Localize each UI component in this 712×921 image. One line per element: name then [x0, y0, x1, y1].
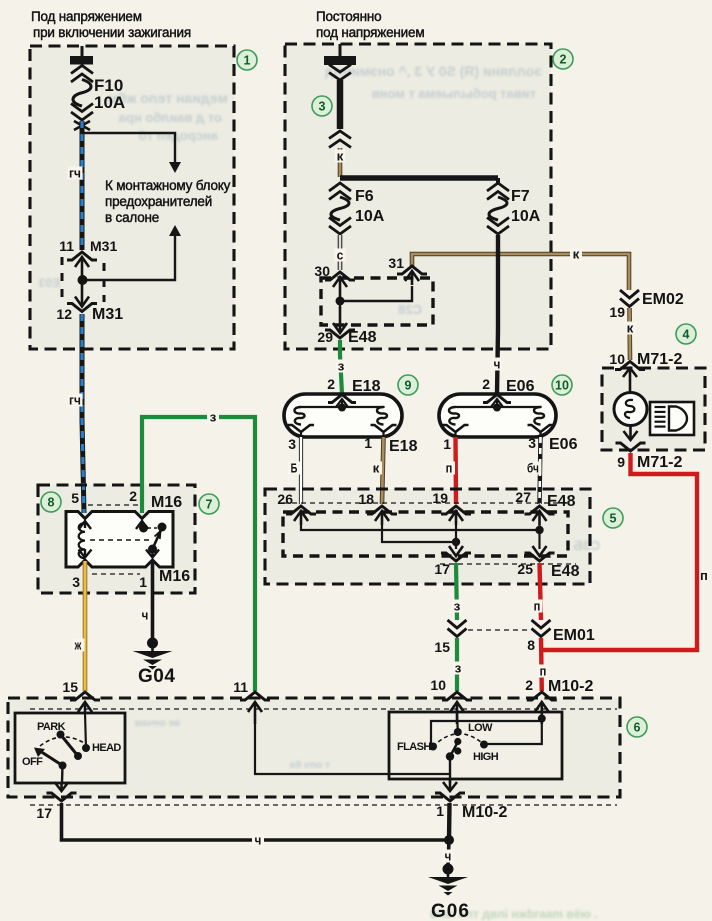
- connector EM01 pin 8: [532, 620, 551, 637]
- svg-text:19: 19: [609, 304, 625, 320]
- label 1 M16: [139, 568, 190, 590]
- label 1 M10-2: [436, 803, 507, 821]
- wire бч white-black from E06 pin 3: [540, 437, 541, 504]
- label к: [625, 321, 636, 336]
- svg-text:в салоне: в салоне: [105, 210, 159, 225]
- E48 internal wire 26 to 27 line: [301, 525, 540, 530]
- relay contact dashed link: [148, 527, 158, 529]
- svg-text:ж: ж: [74, 638, 82, 653]
- lamp E06 left filament: [449, 407, 459, 425]
- light switch labels PARK HEAD OFF: [22, 721, 121, 768]
- svg-text:предохранителей: предохранителей: [105, 194, 212, 209]
- svg-text:19: 19: [432, 490, 448, 506]
- note text К монтажному блоку предохранителей в салоне: [105, 178, 231, 225]
- relay contact arm: [153, 531, 161, 549]
- wire ч to ground G06: [448, 840, 449, 866]
- connector 19 E48: [441, 506, 471, 525]
- label 3: [72, 574, 80, 590]
- svg-text:М10-2: М10-2: [548, 678, 593, 695]
- labels 1 3 E06 bottom: [443, 435, 577, 453]
- label G06: [431, 901, 470, 921]
- label ч: [443, 849, 454, 864]
- label гч lower: [68, 393, 83, 408]
- light switch dashed arc: [40, 737, 86, 746]
- svg-text:3: 3: [528, 435, 536, 451]
- dimmer switch box: [389, 712, 562, 779]
- label 11 M31: [59, 238, 117, 254]
- label з: [336, 359, 347, 374]
- svg-text:F7: F7: [511, 188, 530, 205]
- svg-text:10: 10: [430, 677, 446, 693]
- junction dot ground: [444, 835, 454, 845]
- svg-text:ч: ч: [494, 357, 501, 372]
- connector 27 E48: [525, 506, 555, 525]
- svg-text:8: 8: [527, 637, 535, 653]
- svg-text:4: 4: [683, 328, 690, 342]
- wire к segment to fuse bus: [338, 148, 343, 177]
- label гч: [68, 166, 83, 181]
- dimmer contacts: [429, 728, 488, 761]
- svg-text:25: 25: [517, 561, 533, 577]
- branch wire to arrow (к монтажному блоку): [82, 133, 181, 173]
- svg-text:М10-2: М10-2: [462, 804, 507, 821]
- label 26: [277, 491, 293, 507]
- svg-text:от д ваилбо нра: от д ваилбо нра: [118, 110, 222, 125]
- svg-text:при включении зажигания: при включении зажигания: [33, 25, 191, 40]
- svg-text:Постоянно: Постоянно: [316, 9, 381, 24]
- label к on horizontal brown wire: [570, 247, 582, 262]
- svg-text:Е48: Е48: [547, 493, 576, 510]
- svg-text:к: к: [337, 149, 344, 164]
- label ч: [492, 357, 503, 372]
- label з on green horizontal: [207, 410, 219, 425]
- connector 11 M31: [67, 252, 97, 280]
- inline connector chevrons on battery cable: [329, 131, 351, 148]
- svg-text:С28: С28: [398, 302, 422, 317]
- svg-text:2: 2: [525, 677, 533, 693]
- svg-text:М16: М16: [151, 494, 182, 511]
- block box 7/8 (relay M16): [38, 485, 195, 593]
- light switch common wire to pin 17: [61, 766, 64, 784]
- connector chevrons below battery bar: [329, 65, 351, 81]
- svg-text:F6: F6: [355, 188, 374, 205]
- wire к brown from connector 31 to EM02: [412, 254, 629, 290]
- svg-text:п: п: [540, 664, 547, 679]
- svg-text:9: 9: [617, 454, 625, 470]
- E48 upper row thin dashed line: [283, 502, 568, 504]
- svg-text:10A: 10A: [355, 208, 385, 225]
- svg-text:12: 12: [56, 306, 72, 322]
- light switch contacts: [57, 731, 91, 770]
- wire ч black from pin 17 to ground junction: [62, 803, 450, 840]
- label к: [335, 149, 346, 164]
- wire к brown from EM02 to M71-2 pin 10: [627, 308, 632, 360]
- svg-text:эолляни (Я) S0 У 3 ,^ онэминлд: эолляни (Я) S0 У 3 ,^ онэминлд: [325, 63, 542, 79]
- wire з green from EM01 to pin 10: [455, 638, 459, 691]
- fuse F6: [329, 183, 351, 234]
- svg-text:31: 31: [388, 255, 404, 271]
- svg-text:LOW: LOW: [468, 722, 493, 734]
- connector pin 11 into box 6: [240, 692, 270, 724]
- svg-text:10A: 10A: [94, 93, 125, 112]
- svg-text:Е48: Е48: [348, 329, 377, 346]
- dimmer wire pin2 node: [431, 712, 546, 746]
- label к: [370, 461, 382, 476]
- svg-text:18: 18: [358, 491, 374, 507]
- connector 29 E48 exit: [325, 301, 355, 338]
- svg-text:ч: ч: [142, 608, 149, 623]
- svg-text:з: з: [338, 359, 345, 374]
- connector 30: [325, 272, 355, 301]
- dimmer dashed arc: [433, 734, 484, 747]
- svg-text:30: 30: [314, 263, 330, 279]
- svg-text:2: 2: [560, 53, 567, 67]
- wire п red from EM01 to pin 2 with feed from M71-2: [539, 638, 544, 691]
- lamp E18 internal bus: [301, 407, 384, 408]
- label 19: [432, 490, 448, 506]
- svg-text:п: п: [534, 599, 541, 614]
- svg-text:т опч ба: т опч ба: [289, 759, 330, 771]
- wire к tan from E18 pin 1: [382, 437, 384, 504]
- label circled 6: [627, 717, 647, 737]
- svg-text:Под напряжением: Под напряжением: [31, 9, 142, 24]
- E48 internal wire 27 down to 25: [525, 525, 555, 561]
- connector pin 9 out of box 4: [616, 426, 646, 452]
- svg-text:з: з: [454, 599, 461, 614]
- svg-text:17: 17: [434, 561, 450, 577]
- label circled 1: [237, 50, 257, 70]
- label з: [453, 661, 464, 676]
- label 15: [434, 639, 450, 655]
- svg-text:тиват робылыема т монв: тиват робылыема т монв: [372, 86, 536, 101]
- label 15: [62, 679, 78, 695]
- light switch arm OFF with arrow: [34, 748, 63, 766]
- svg-text:1: 1: [364, 435, 372, 451]
- label ч: [140, 608, 151, 623]
- block box 5 (connector block E48): [265, 489, 590, 584]
- label 8 EM01: [527, 627, 595, 653]
- svg-text:HEAD: HEAD: [92, 742, 121, 754]
- connector 18 E48: [367, 506, 397, 525]
- svg-text:М71-2: М71-2: [637, 454, 682, 471]
- svg-text:п: п: [446, 461, 453, 476]
- wire з green from 17 to EM01: [456, 563, 457, 620]
- svg-text:15: 15: [62, 679, 78, 695]
- svg-text:Е48: Е48: [551, 563, 580, 580]
- label F7 10A: [511, 188, 541, 225]
- svg-text:Е06: Е06: [506, 378, 535, 395]
- header: Под напряжением при включении зажигания: [31, 9, 191, 40]
- feed stub from box top: [81, 46, 84, 57]
- ground G06: [428, 864, 468, 896]
- svg-text:29: 29: [317, 329, 333, 345]
- connector EM01 pin 15: [448, 620, 467, 637]
- label 29 E48: [317, 329, 376, 346]
- svg-text:HIGH: HIGH: [473, 751, 499, 763]
- svg-text:3: 3: [288, 436, 296, 452]
- svg-text:медиан тело жбм: медиан тело жбм: [108, 90, 228, 106]
- relay top dashed line pins 5-2: [88, 504, 138, 506]
- wire п red from 25 to EM01: [540, 563, 542, 620]
- svg-text:5: 5: [71, 490, 79, 506]
- svg-text:ЕМ02: ЕМ02: [642, 291, 684, 308]
- lamp E06 pin 2 entry chevron: [483, 395, 511, 412]
- label circled 9: [398, 375, 418, 395]
- EM01 dashed link: [468, 629, 529, 631]
- label circled 8: [41, 492, 61, 512]
- svg-text:2: 2: [482, 376, 490, 392]
- svg-text:ансродеп тб: ансродеп тб: [139, 128, 218, 143]
- lamp E06 internal bus: [456, 407, 541, 408]
- wire ч black from relay pin 1 to ground G04: [151, 561, 155, 638]
- fuse F10: [71, 66, 93, 131]
- E48 lower row thin dashed line: [440, 563, 576, 565]
- svg-text:ч: ч: [445, 849, 452, 864]
- lamp E18 right filament: [377, 407, 387, 425]
- box 6 inner thin dashed top: [30, 708, 617, 710]
- dimmer common wire to pin 1: [449, 757, 451, 784]
- branch wire from junction to up arrow (в салоне): [83, 225, 181, 280]
- svg-text:9: 9: [405, 379, 412, 393]
- svg-text:К монтажному блоку: К монтажному блоку: [105, 178, 231, 193]
- svg-text:с: с: [337, 248, 344, 263]
- headlight icon: [650, 402, 694, 435]
- connector 12 M31: [67, 281, 97, 312]
- svg-text:Е06: Е06: [549, 436, 578, 453]
- block box 2 (battery feed): [285, 44, 551, 349]
- relay contact arrow to pin 1: [146, 550, 159, 558]
- svg-text:6: 6: [634, 721, 641, 735]
- label 17: [36, 805, 52, 821]
- svg-text:гч: гч: [69, 393, 81, 408]
- label 17: [434, 561, 450, 577]
- labels 3 1 E18 bottom: [288, 435, 417, 455]
- label 10 M10-2 top: [430, 677, 446, 693]
- wire з green from relay pin 2 up and to drop at x255: [142, 417, 255, 691]
- svg-text:к: к: [373, 461, 380, 476]
- svg-text:1: 1: [139, 574, 147, 590]
- svg-text:Е18: Е18: [389, 438, 418, 455]
- junction dot 30/31: [336, 297, 345, 306]
- ground G04: [133, 638, 173, 670]
- light switch arm PARK: [61, 735, 83, 761]
- lamp E06 exit chevrons: [443, 425, 554, 437]
- svg-text:М71-2: М71-2: [637, 351, 682, 368]
- label 2 M10-2 top: [525, 677, 593, 695]
- svg-text:5: 5: [610, 512, 617, 526]
- connector pin 2 into box 6: [527, 692, 557, 724]
- svg-text:8: 8: [48, 496, 55, 510]
- wire с grey below F6: [338, 235, 343, 270]
- label 2 E06: [482, 376, 534, 395]
- label G04: [138, 666, 175, 687]
- label ж: [72, 638, 85, 653]
- label circled 4: [676, 324, 696, 344]
- svg-text:G06: G06: [431, 901, 470, 921]
- feed terminal bar: [70, 56, 93, 65]
- svg-text:1: 1: [436, 803, 444, 819]
- svg-text:М16: М16: [159, 568, 190, 585]
- svg-text:11: 11: [233, 679, 248, 695]
- E48 internal junction dot on 27 line: [535, 526, 543, 534]
- label с: [335, 248, 346, 263]
- connector EM02: [620, 290, 639, 307]
- svg-text:FLASH: FLASH: [397, 741, 431, 753]
- lamp E18 bottom dashed line: [301, 436, 384, 438]
- wire п red from E06 pin 1: [453, 437, 458, 504]
- svg-text:бч: бч: [527, 461, 539, 476]
- block box 1 (ignition feed): [30, 46, 234, 349]
- dimmer wire pin10 to LOW: [456, 712, 459, 732]
- label F10 10A: [94, 76, 125, 112]
- svg-text:к: к: [573, 247, 580, 262]
- label бч: [525, 461, 542, 476]
- svg-text:ч: ч: [255, 833, 262, 848]
- connector pin 10 into box 6: [442, 692, 472, 724]
- svg-text:под напряжением: под напряжением: [316, 25, 424, 40]
- label Б: [288, 461, 300, 476]
- label circled 3: [312, 96, 332, 116]
- svg-text:10: 10: [609, 351, 625, 367]
- relay contact dots: [139, 523, 167, 554]
- lamp E18 pin 2 entry chevron: [328, 395, 356, 412]
- svg-text:17: 17: [36, 805, 52, 821]
- connector pin 15 into box 6: [70, 692, 100, 724]
- label 18: [358, 491, 374, 507]
- fuse F7: [487, 178, 509, 234]
- wire from pin 11 to dimmer common: [255, 723, 450, 774]
- connector pin 17 out of box 6: [47, 782, 77, 801]
- block box 4 (headlamp leveling / high beam): [602, 368, 705, 450]
- relay coil arrow to pin 3: [79, 549, 92, 558]
- relay body M16: [66, 512, 173, 568]
- E48 internal junction dot on 19 line: [452, 538, 460, 546]
- relay mech dashed line: [90, 539, 150, 541]
- light switch wire from pin 15 to HEAD contact: [85, 713, 86, 748]
- label circled 10: [552, 375, 572, 395]
- svg-text:OFF: OFF: [22, 756, 43, 768]
- svg-text:п: п: [700, 568, 708, 583]
- bulb symbol M71-2: [614, 393, 647, 426]
- svg-text:27: 27: [515, 489, 531, 505]
- wire гч from 12 M31 down to relay pin 5: [82, 314, 84, 513]
- label circled 5: [603, 508, 623, 528]
- wire гч blue/black from F10 to connector 11 M31: [80, 121, 85, 250]
- connector 31: [397, 266, 427, 285]
- junction dot M31: [78, 275, 88, 285]
- label п: [538, 664, 549, 679]
- internal wire 31 to junction: [341, 286, 412, 301]
- relay pin 5 arrow: [79, 521, 91, 529]
- relay coil: [79, 523, 85, 558]
- svg-text:15: 15: [434, 639, 450, 655]
- dimmer labels FLASH LOW HIGH: [397, 722, 499, 763]
- svg-text:11: 11: [59, 238, 74, 254]
- E48 internal wire 18 to 19 line: [382, 525, 456, 542]
- label з: [452, 599, 463, 614]
- label 25 E48: [517, 561, 579, 580]
- svg-text:з: з: [455, 661, 462, 676]
- label п on red wire: [700, 568, 708, 583]
- svg-text:Е18: Е18: [352, 378, 381, 395]
- battery stub from box top: [339, 44, 342, 57]
- svg-text:М31: М31: [90, 238, 117, 254]
- svg-text:10: 10: [555, 379, 569, 393]
- svg-text:10A: 10A: [511, 208, 541, 225]
- label circled 7: [199, 494, 219, 514]
- header: Постоянно под напряжением: [316, 9, 424, 40]
- relay pin 2 arrow: [136, 521, 148, 529]
- E48 internal wire 19 down to 17: [441, 525, 471, 561]
- label п: [532, 599, 543, 614]
- svg-text:26: 26: [277, 491, 293, 507]
- connector pin 10 into box 4: [615, 362, 645, 395]
- label EM02 19: [609, 291, 683, 320]
- svg-text:1: 1: [443, 436, 451, 452]
- label 5: [71, 490, 79, 506]
- label circled 2: [553, 49, 573, 69]
- connector block dashed box 30/31: [321, 278, 433, 325]
- thick battery cable: [337, 80, 344, 129]
- svg-text:гч: гч: [69, 166, 81, 181]
- label 10 M71-2: [609, 351, 682, 368]
- fuse bus wire: [340, 175, 498, 181]
- light switch box: [15, 713, 125, 783]
- label 2 E18: [327, 376, 380, 395]
- svg-text:Е03: Е03: [38, 276, 60, 290]
- lamp E18 exit chevrons: [288, 425, 397, 437]
- label 12 M31: [56, 306, 123, 323]
- svg-text:М31: М31: [92, 306, 123, 323]
- label п: [443, 461, 455, 476]
- label 27 E48: [515, 489, 575, 510]
- label 31: [388, 255, 404, 271]
- svg-text:к: к: [627, 321, 634, 336]
- svg-text:2: 2: [129, 488, 137, 504]
- label 11: [233, 679, 248, 695]
- box 6 inner thin dashed bottom: [30, 804, 617, 806]
- svg-text:7: 7: [206, 498, 213, 512]
- connector 26 E48: [286, 506, 316, 525]
- label ч on horizontal wire: [252, 833, 264, 848]
- wire ч black from F7 to lamp E06: [497, 235, 498, 394]
- wire from pin 1 down to junction: [447, 803, 452, 840]
- wire Б white from E18 pin 3: [299, 437, 303, 504]
- svg-text:Б: Б: [291, 461, 298, 476]
- svg-text:СЗБ: СЗБ: [573, 538, 600, 553]
- svg-text:1: 1: [244, 54, 251, 68]
- label F6 10A: [355, 188, 385, 225]
- relay bottom dashed line pins 3-1: [92, 573, 140, 575]
- battery terminal bar: [324, 56, 356, 65]
- wire ж yellow from relay pin 3 to switch pin 15: [83, 561, 88, 691]
- lamp E06 (right headlamp): [439, 394, 556, 437]
- svg-text:2: 2: [327, 376, 335, 392]
- svg-text:3: 3: [319, 100, 326, 114]
- lamp E18 left filament: [295, 407, 305, 425]
- label 9 M71-2: [617, 454, 682, 471]
- wire з green from 29 E48 to lamp E18: [340, 340, 342, 394]
- inner dashed box E48: [283, 512, 568, 556]
- svg-text:ве ончам: ве ончам: [135, 718, 180, 729]
- svg-text:з: з: [210, 410, 217, 425]
- svg-text:ЕМ01: ЕМ01: [553, 627, 595, 644]
- label 30: [314, 263, 330, 279]
- svg-text:3: 3: [72, 574, 80, 590]
- label 2 M16: [129, 488, 182, 511]
- lamp E06 right filament: [534, 407, 544, 425]
- svg-text:G04: G04: [138, 666, 175, 687]
